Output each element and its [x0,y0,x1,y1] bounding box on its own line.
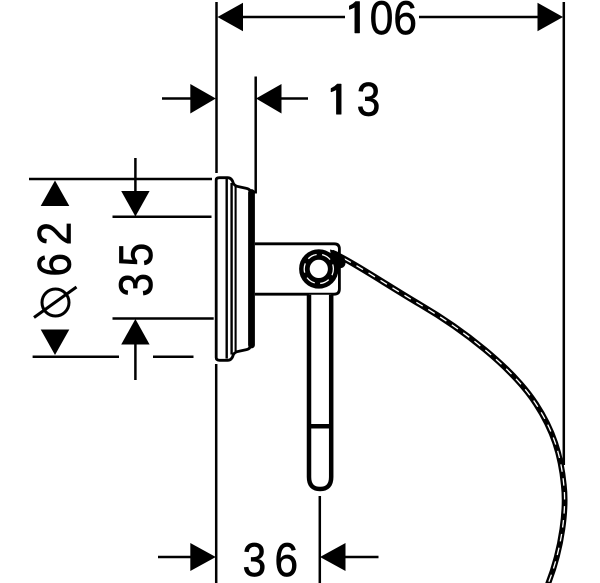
dimension line 36 right tail [345,556,379,559]
arrow left of 106 [218,3,244,31]
plate contour line 2 [225,179,227,359]
svg-text:36: 36 [243,535,307,583]
arrow left of 36 (pointing right) [190,543,216,571]
arrow down (35 top, pointing down) [121,191,149,217]
plate contour line 4 [235,187,237,352]
dimension line 36 left tail [158,556,191,559]
extension line right (106) [563,2,566,465]
svg-text:62: 62 [30,214,82,276]
escutcheon plate outline [216,178,251,361]
extension line bottom (diameter 62) right part [153,356,194,359]
dimension line 35 lower [134,336,137,380]
cord attachment lug [330,250,346,269]
extension line right (36, rod centre) [319,496,322,583]
svg-text:35: 35 [111,236,163,296]
extension line top (diameter 62) [29,178,212,181]
extension line left (wall plane, top) [215,2,218,173]
dimension line 106 right segment [419,16,540,19]
rod joint line [308,424,333,429]
dimension line 13 left tail [162,97,192,100]
extension line bottom (diameter 62) [33,356,119,359]
extension line bottom (35) [113,317,214,320]
label 106 [349,2,359,34]
arm housing [255,244,339,294]
arrow up (62) [41,181,70,207]
cord (black) [332,253,565,583]
extension line left (36, wall plane bottom) [215,364,218,583]
extension line right (13, front face plane) [254,77,257,194]
extension line top (35) [113,216,212,219]
svg-text:3: 3 [357,75,381,127]
arrow right of 36 (pointing left) [320,543,346,571]
arrow right of 13 (pointing left) [256,84,282,114]
dimension line 106 left segment [240,16,345,19]
pivot ring dashed highlight [304,254,333,283]
arrow right of 106 [538,3,564,31]
dimension line 35 upper [134,158,137,200]
svg-text:06: 06 [370,0,417,45]
plate front thick silhouette [248,193,255,346]
dimension line 13 right tail [281,97,308,100]
arrow left of 13 (pointing right) [190,84,216,114]
arrow down (62) [41,330,70,356]
diameter symbol [34,287,77,318]
arrow up (35 bottom, pointing up) [121,319,149,345]
pivot ring [304,255,333,284]
cord centre dashed white [332,253,565,583]
label 13 [331,84,341,114]
hanging rod [309,295,331,489]
plate contour line 3 [230,183,232,355]
